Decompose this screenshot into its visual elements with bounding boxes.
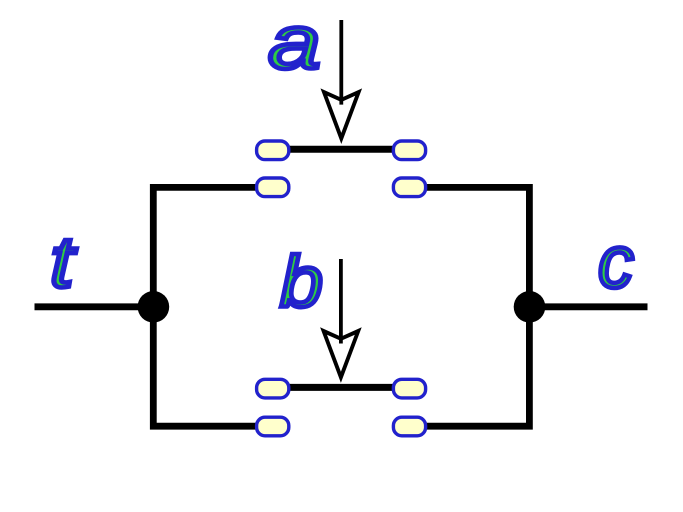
svg-text:a: a — [268, 1, 320, 85]
svg-text:b: b — [280, 242, 323, 322]
svg-text:t: t — [50, 222, 77, 302]
svg-text:c: c — [598, 221, 634, 303]
